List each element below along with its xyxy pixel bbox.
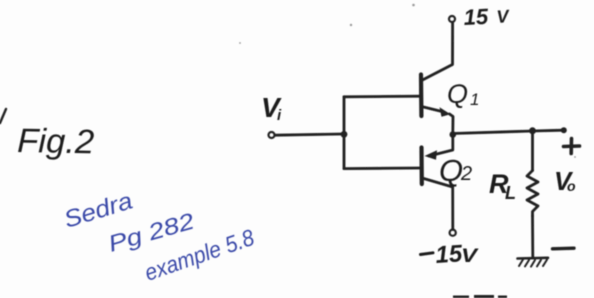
svg-text:Fig.2: Fig.2	[17, 122, 95, 161]
svg-text:15: 15	[435, 240, 464, 269]
svg-text:o: o	[567, 178, 576, 194]
svg-text:V: V	[496, 6, 511, 27]
svg-text:Q: Q	[439, 153, 463, 188]
svg-text:L: L	[505, 183, 516, 203]
svg-text:1: 1	[470, 90, 479, 109]
svg-text:V: V	[461, 246, 479, 267]
svg-text:2: 2	[460, 163, 472, 185]
svg-text:Q: Q	[447, 79, 468, 109]
svg-text:i: i	[277, 107, 282, 124]
svg-text:15: 15	[463, 4, 490, 30]
